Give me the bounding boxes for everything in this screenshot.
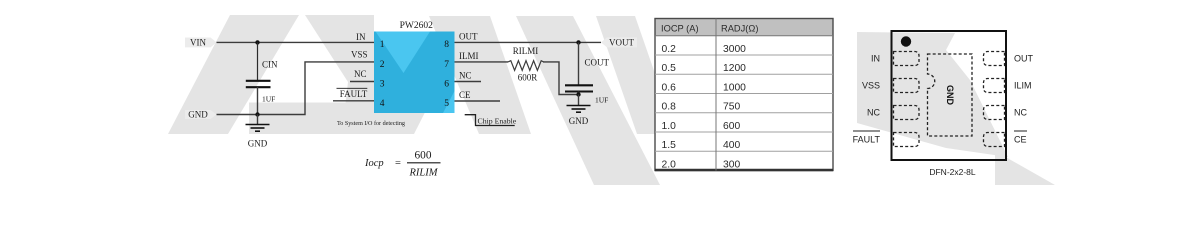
svg-text:To System I/O for detecting: To System I/O for detecting (337, 120, 405, 127)
svg-text:RILMI: RILMI (513, 46, 539, 56)
svg-text:GND: GND (569, 116, 589, 126)
svg-text:RADJ(Ω): RADJ(Ω) (721, 23, 758, 33)
svg-text:GND: GND (945, 85, 955, 106)
package pad pin5 (984, 133, 1005, 147)
package pad pin7 (984, 79, 1005, 93)
Chip Enable flag (465, 115, 517, 126)
svg-text:600R: 600R (518, 73, 538, 83)
wire OUT to VOUT (455, 41, 602, 43)
package DFN outline (892, 31, 1007, 160)
svg-text:600: 600 (415, 150, 432, 162)
svg-text:CIN: CIN (262, 60, 278, 70)
watermark package mountain (857, 32, 1008, 157)
ground symbol right (567, 95, 591, 126)
package pad pin8 (984, 52, 1005, 66)
watermark band F (596, 16, 676, 134)
svg-text:0.2: 0.2 (662, 44, 677, 55)
pin 1 marker dot (901, 36, 911, 46)
svg-text:3: 3 (380, 79, 385, 89)
svg-text:400: 400 (723, 140, 740, 151)
watermark band A left leg (168, 15, 299, 134)
svg-text:IN: IN (356, 32, 366, 42)
resistor RILMI 600R (508, 46, 544, 83)
node junction VIN/CIN (255, 40, 259, 44)
wire COUT top (578, 42, 580, 85)
svg-text:600: 600 (723, 121, 740, 132)
svg-text:3000: 3000 (723, 44, 746, 55)
svg-text:NC: NC (354, 69, 367, 79)
watermark band D (429, 16, 531, 134)
ground symbol left (246, 115, 270, 149)
svg-text:FAULT: FAULT (340, 89, 368, 99)
capacitor CIN (246, 60, 278, 104)
svg-text:4: 4 (380, 99, 385, 109)
pin label FAULT with overline (337, 88, 368, 99)
table RADJ values (655, 19, 833, 171)
svg-text:2: 2 (380, 60, 385, 70)
svg-text:0.6: 0.6 (662, 83, 677, 94)
wire ILMI to resistor (455, 61, 509, 63)
svg-text:RILIM: RILIM (409, 168, 439, 179)
package pad pin1 (894, 52, 920, 66)
package pad pin3 (894, 106, 920, 120)
package pad pin4 (894, 133, 920, 147)
svg-text:1.5: 1.5 (662, 140, 677, 151)
svg-text:COUT: COUT (585, 58, 610, 68)
svg-text:0.5: 0.5 (662, 63, 677, 74)
svg-text:1.0: 1.0 (662, 121, 677, 132)
svg-text:5: 5 (444, 99, 449, 109)
wire COUT bottom (578, 92, 580, 95)
svg-text:CE: CE (1014, 135, 1027, 145)
watermark band E (516, 16, 660, 185)
package thermal pad GND (928, 54, 973, 136)
svg-text:ILMI: ILMI (459, 51, 479, 61)
svg-text:8: 8 (444, 40, 449, 50)
svg-text:1: 1 (380, 40, 385, 50)
wire CE stub (455, 100, 501, 102)
svg-text:VIN: VIN (190, 37, 206, 47)
wire NC stub left (350, 81, 374, 83)
node junction GND/CIN (255, 112, 259, 116)
IC U1 PW2602 body (374, 21, 455, 113)
svg-text:1200: 1200 (723, 63, 746, 74)
svg-text:GND: GND (248, 138, 268, 148)
svg-text:1000: 1000 (723, 83, 746, 94)
svg-text:0.8: 0.8 (662, 102, 677, 113)
svg-text:NC: NC (459, 71, 472, 81)
svg-text:PW2602: PW2602 (400, 21, 434, 31)
svg-text:IOCP (A): IOCP (A) (661, 23, 699, 33)
watermark base bar (249, 103, 430, 135)
wire resistor to gnd node (543, 62, 579, 95)
svg-text:OUT: OUT (1014, 54, 1034, 64)
svg-text:2.0: 2.0 (662, 160, 677, 171)
svg-text:GND: GND (188, 110, 208, 120)
svg-text:FAULT: FAULT (853, 135, 881, 145)
formula Iocp = 600/RILIM (364, 150, 441, 179)
svg-text:VSS: VSS (862, 81, 880, 91)
package pad pin2 (894, 79, 920, 93)
package label CE with overline (1014, 131, 1027, 145)
svg-text:DFN-2x2-8L: DFN-2x2-8L (929, 167, 976, 177)
capacitor COUT (565, 58, 610, 105)
svg-text:VSS: VSS (351, 49, 368, 59)
svg-text:VOUT: VOUT (609, 37, 634, 47)
package pad pin6 (984, 106, 1005, 120)
svg-text:OUT: OUT (459, 32, 478, 42)
svg-text:ILIM: ILIM (1014, 81, 1032, 91)
wire GND net (217, 62, 375, 115)
watermark band B (305, 15, 374, 134)
svg-text:CE: CE (459, 90, 471, 100)
svg-text:=: = (395, 158, 401, 169)
svg-text:IN: IN (871, 54, 880, 64)
net flag VIN (185, 37, 217, 47)
wire CIN top (257, 42, 259, 80)
wire VIN to IN pin (217, 41, 375, 43)
svg-text:NC: NC (867, 108, 880, 118)
package label FAULT with overline (853, 131, 881, 145)
node junction gnd right (576, 92, 580, 96)
svg-text:Chip Enable: Chip Enable (478, 117, 517, 126)
svg-text:7: 7 (444, 60, 449, 70)
wire FAULT (333, 100, 374, 102)
wire NC stub right (455, 81, 482, 83)
wire CIN bottom (257, 87, 259, 115)
svg-text:6: 6 (444, 79, 449, 89)
svg-text:Iocp: Iocp (364, 158, 384, 169)
svg-text:NC: NC (1014, 108, 1027, 118)
net flag GND left (185, 110, 217, 120)
watermark package corner wedge (995, 151, 1055, 185)
svg-text:1UF: 1UF (262, 95, 275, 104)
svg-text:1UF: 1UF (595, 96, 608, 105)
net flag VOUT (601, 37, 637, 47)
node junction OUT/COUT (576, 40, 580, 44)
svg-text:750: 750 (723, 102, 740, 113)
svg-text:300: 300 (723, 160, 740, 171)
